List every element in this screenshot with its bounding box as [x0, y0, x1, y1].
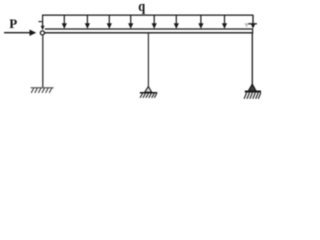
left column: [42, 36, 44, 88]
hinge circle at left end of beam: [40, 31, 44, 35]
middle column: [147, 33, 149, 87]
distributed load arrow 8: [222, 15, 227, 29]
distributed load arrow 3: [107, 15, 112, 29]
svg-text:q: q: [138, 0, 145, 14]
right end tick: [248, 23, 257, 25]
right support pin triangle: [248, 84, 256, 91]
beam bottom chord: [45, 32, 253, 34]
beam right end cap: [252, 29, 254, 34]
distributed load arrow 7: [198, 15, 203, 29]
load line (top of distributed load q): [42, 14, 253, 16]
right end arrow of distributed load: [251, 15, 255, 29]
middle support hachures: [140, 93, 157, 98]
middle support pin triangle: [145, 87, 152, 93]
middle support ground line: [140, 92, 157, 94]
right support hachures: [244, 93, 261, 99]
svg-text:P: P: [9, 16, 17, 31]
left end tick: [38, 21, 42, 23]
left support hachures: [31, 88, 52, 93]
beam top chord: [45, 28, 253, 30]
left support ground line: [31, 87, 54, 89]
right column: [251, 33, 253, 84]
distributed load arrow 4: [128, 15, 133, 29]
distributed load arrow 6: [174, 15, 179, 29]
distributed load arrow 5: [152, 15, 157, 29]
distributed load arrow 2: [85, 15, 90, 29]
distributed load arrow 1: [62, 15, 67, 29]
right support ground line: [245, 91, 261, 93]
left end arrow of distributed load: [41, 15, 45, 30]
force P arrow: [4, 30, 36, 36]
distributed load arrow 9 (faint, near right end): [244, 23, 249, 27]
